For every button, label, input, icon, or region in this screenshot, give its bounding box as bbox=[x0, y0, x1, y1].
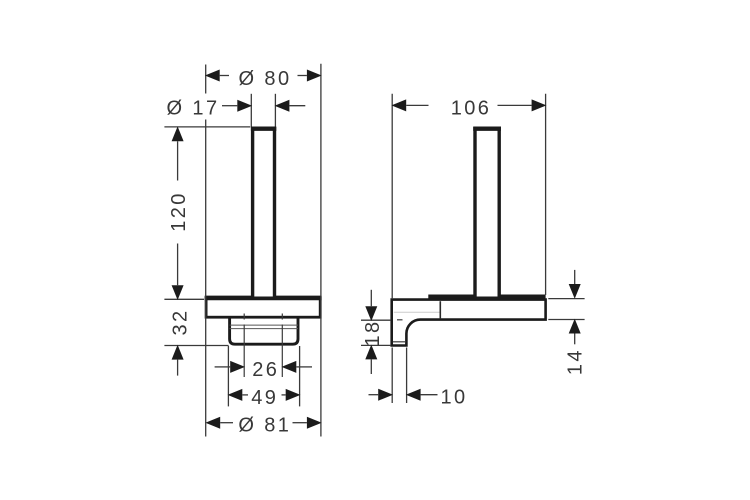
extension line right for 106 (x=545.6) bbox=[545, 94, 547, 295]
svg-text:14: 14 bbox=[565, 348, 587, 375]
horizontal extension lines for 14 bbox=[548, 298, 584, 300]
extension line left of plate (x=205.7) bbox=[205, 65, 207, 94]
svg-text:Ø 80: Ø 80 bbox=[239, 68, 292, 90]
front view: cover plate body bbox=[206, 298, 320, 317]
side view: faint inner edge bbox=[394, 311, 440, 313]
horizontal extension line at collar bottom level bbox=[164, 345, 228, 347]
dimension dia17 bbox=[167, 98, 306, 120]
extension line right of plate (x=320.9) bbox=[320, 64, 322, 437]
extension lines above post for dia17 bbox=[250, 94, 252, 127]
side view: wall bracket outline bbox=[392, 300, 546, 346]
svg-text:120: 120 bbox=[168, 191, 190, 232]
extension line left for 106 / 10 (x=392.2) bbox=[391, 94, 393, 299]
dimension dia80 bbox=[205, 68, 322, 90]
dimension 106 bbox=[391, 97, 546, 119]
dimension 32 (vertical) bbox=[169, 308, 191, 375]
dimension 14 (vertical, right of bracket) bbox=[565, 270, 587, 375]
svg-text:Ø 81: Ø 81 bbox=[238, 415, 291, 437]
extension lines for 49 bbox=[227, 346, 229, 406]
front view: plate top thick edge bbox=[205, 296, 322, 301]
extension line for 10 right (x=406.6) bbox=[406, 348, 408, 404]
svg-text:Ø 17: Ø 17 bbox=[167, 98, 220, 120]
horizontal extension lines for 18 bbox=[361, 319, 391, 321]
svg-text:18: 18 bbox=[362, 319, 384, 346]
side view: plate top thick edge bbox=[428, 295, 545, 299]
front view: hidden edge lines (26 wide) bbox=[243, 314, 245, 320]
svg-text:49: 49 bbox=[251, 387, 278, 409]
side view: hook inner lip line bbox=[393, 341, 405, 343]
dimension dia81 bbox=[205, 415, 321, 437]
side view: hidden dash left of fillet bbox=[397, 319, 403, 321]
front view: vertical post (spare roll holder rod) bbox=[251, 129, 276, 299]
svg-text:26: 26 bbox=[252, 359, 279, 381]
front view: collar inner step lines bbox=[230, 324, 298, 326]
side view: vertical post bbox=[473, 129, 501, 299]
front view: base collar (mounting piece under plate) bbox=[230, 316, 298, 345]
side view: joint line between bracket and cover bbox=[439, 301, 441, 318]
svg-text:32: 32 bbox=[169, 308, 191, 335]
horizontal extension line at post top level bbox=[164, 126, 250, 128]
dimension 18 (vertical, left of bracket) bbox=[362, 290, 384, 374]
horizontal extension line at plate top level bbox=[164, 298, 204, 300]
svg-text:10: 10 bbox=[440, 387, 467, 409]
dimension 120 (vertical) bbox=[168, 126, 190, 300]
dimension 10 bbox=[369, 387, 468, 409]
dimension 26 bbox=[215, 359, 312, 381]
svg-text:106: 106 bbox=[451, 97, 492, 119]
dimension 49 bbox=[228, 387, 301, 409]
